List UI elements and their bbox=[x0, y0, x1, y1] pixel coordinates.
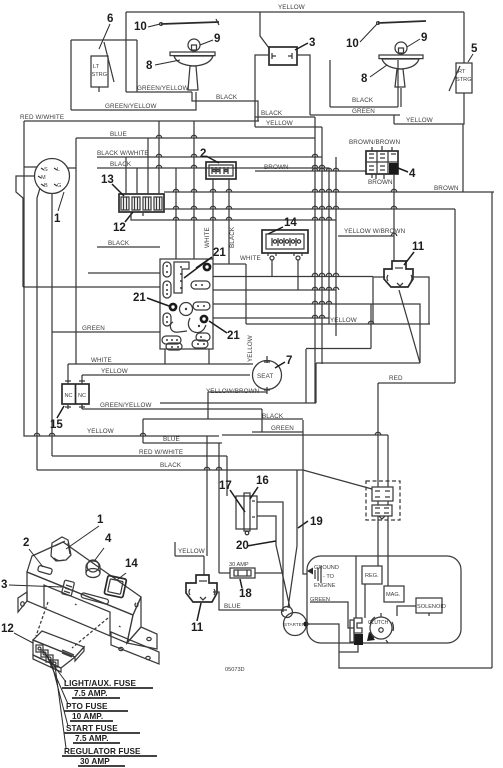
svg-text:STRG: STRG bbox=[456, 77, 472, 83]
console front face bbox=[27, 572, 133, 643]
console switch slot 3 bbox=[61, 580, 74, 596]
wire green/yellow upper bbox=[126, 91, 192, 93]
wire brown left bus bbox=[255, 170, 366, 172]
svg-text:BLACK: BLACK bbox=[108, 240, 130, 247]
svg-text:BLACK: BLACK bbox=[352, 97, 374, 104]
wire blue bus bbox=[76, 137, 315, 139]
svg-text:BLACK: BLACK bbox=[261, 110, 283, 117]
leader 11 lower bbox=[197, 603, 201, 621]
svg-text:RT: RT bbox=[458, 69, 466, 75]
wire pcb right stub 262 bbox=[213, 263, 246, 265]
wire lamp stem to black bbox=[192, 92, 258, 121]
svg-text:7.5 AMP.: 7.5 AMP. bbox=[75, 734, 109, 743]
svg-text:7: 7 bbox=[286, 355, 292, 367]
console leader 2 bbox=[29, 549, 43, 567]
wire starter dot to engine loop bbox=[306, 624, 492, 668]
connector 4 bbox=[366, 151, 398, 174]
svg-text:- TO: - TO bbox=[323, 574, 335, 580]
svg-text:GREEN/YELLOW: GREEN/YELLOW bbox=[100, 402, 152, 409]
console hidden leader dashed b bbox=[72, 618, 108, 648]
wire 19 drop bbox=[288, 470, 297, 608]
svg-text:8: 8 bbox=[361, 73, 368, 85]
console top face bbox=[27, 542, 141, 615]
svg-text:11: 11 bbox=[412, 241, 425, 253]
hour meter 2 bbox=[206, 162, 236, 179]
wire 363 vertical bbox=[315, 363, 317, 403]
fuse label pto bbox=[64, 702, 128, 721]
wire fuse pin up 3 bbox=[147, 138, 149, 194]
svg-text:21: 21 bbox=[227, 330, 240, 342]
leader 12 bbox=[125, 212, 133, 222]
svg-text:NC: NC bbox=[65, 393, 73, 399]
wire yellow right drop bbox=[462, 124, 464, 192]
svg-text:YELLOW: YELLOW bbox=[266, 120, 293, 127]
engine block bbox=[307, 556, 461, 643]
wire ignition G down bbox=[51, 194, 53, 456]
wire ignition L right bbox=[67, 167, 76, 169]
console leader 3 bbox=[9, 585, 62, 587]
wire pcb top pin long bbox=[193, 121, 195, 259]
dashed connector box bbox=[366, 481, 400, 520]
seat switch 7 bbox=[253, 356, 282, 394]
svg-text:YELLOW: YELLOW bbox=[330, 317, 357, 324]
wire conn feed left bbox=[222, 434, 388, 436]
pcb module bbox=[160, 259, 213, 350]
svg-text:RED W/WHITE: RED W/WHITE bbox=[139, 449, 183, 456]
console leader 14 bbox=[117, 573, 126, 580]
magneto box bbox=[384, 586, 404, 602]
solenoid box bbox=[416, 598, 446, 613]
svg-text:GREEN/YELLOW: GREEN/YELLOW bbox=[137, 85, 189, 92]
svg-text:10: 10 bbox=[346, 38, 359, 50]
wire LT STRG bottom stub bbox=[98, 87, 100, 92]
leader 1 ignition bbox=[58, 192, 64, 211]
wire flasher left pin bbox=[255, 55, 269, 127]
fuse leader 1 bbox=[43, 651, 66, 682]
connector pin 21 bottom bbox=[200, 315, 209, 324]
wire meter14 left pin down bbox=[271, 260, 273, 276]
svg-text:BLUE: BLUE bbox=[224, 603, 241, 610]
svg-text:CLUTCH: CLUTCH bbox=[368, 620, 389, 626]
wire from top frame to resistor box 3 bbox=[260, 12, 269, 48]
console notch bbox=[44, 585, 110, 636]
wire frame left vertical bbox=[70, 40, 72, 110]
svg-text:30 AMP: 30 AMP bbox=[80, 757, 110, 766]
svg-text:L: L bbox=[57, 167, 60, 173]
switch RT STRG body bbox=[456, 63, 472, 93]
label GROUND TO ENGINE bbox=[314, 565, 339, 589]
leader 13 bbox=[112, 184, 124, 196]
wire rt strg top to yellow bus bbox=[463, 12, 465, 63]
wire blue elbow left bbox=[142, 419, 144, 443]
wire meter14 right pin down bbox=[297, 260, 299, 290]
svg-text:12: 12 bbox=[113, 222, 126, 234]
svg-text:18: 18 bbox=[239, 588, 252, 600]
leader 7 bbox=[275, 362, 285, 368]
wire 371 riser bbox=[370, 304, 372, 349]
svg-text:BLACK: BLACK bbox=[216, 94, 238, 101]
wire engine conn bottom drop bbox=[339, 645, 358, 652]
wire fuse16 right top bbox=[257, 502, 283, 612]
svg-text:BROWN: BROWN bbox=[434, 185, 459, 192]
wire central vertical 3 bbox=[328, 168, 330, 324]
wire solenoid stub bbox=[428, 613, 430, 616]
wire blue 443 bus bbox=[143, 442, 222, 444]
svg-text:5: 5 bbox=[471, 43, 478, 55]
wire yellow w/brown bus bbox=[338, 235, 394, 237]
wire pcb right stub 304 bbox=[213, 304, 420, 363]
svg-text:16: 16 bbox=[256, 475, 269, 487]
svg-text:BLACK: BLACK bbox=[160, 462, 182, 469]
leader 15 bbox=[57, 406, 64, 418]
wire fuse18 right bbox=[255, 572, 283, 574]
svg-text:LIGHT/AUX. FUSE: LIGHT/AUX. FUSE bbox=[64, 679, 136, 688]
flasher box 3 bbox=[269, 47, 297, 65]
wire red w/white top bus bbox=[24, 120, 259, 122]
wire ignition S up bbox=[24, 166, 37, 168]
wire fuse pin up 2 bbox=[136, 168, 138, 194]
svg-text:19: 19 bbox=[310, 516, 323, 528]
svg-text:BLUE: BLUE bbox=[110, 131, 127, 138]
wire pcb right stub 290 bbox=[213, 289, 336, 291]
clutch bbox=[367, 613, 393, 643]
fuse label start bbox=[64, 724, 140, 743]
wire fuse18 left bbox=[219, 572, 230, 574]
console left foot bbox=[18, 592, 27, 612]
wire fuse out B bbox=[142, 212, 144, 216]
wire frame right vertical bbox=[136, 40, 138, 92]
wire left feed 287 bbox=[23, 286, 160, 288]
wire yellow 434 bus bbox=[24, 121, 219, 436]
wire left feed 273 bbox=[88, 272, 160, 274]
svg-text:BLUE: BLUE bbox=[163, 436, 180, 443]
wire solenoid left bbox=[397, 606, 416, 616]
svg-text:4: 4 bbox=[105, 533, 112, 545]
wire pcb bottom stub a bbox=[164, 349, 166, 364]
fuse leader 2 bbox=[47, 656, 68, 704]
wire top yellow bus bbox=[126, 11, 464, 13]
wire right lamp bottom black bbox=[330, 106, 398, 108]
svg-text:STRG: STRG bbox=[92, 72, 108, 78]
svg-text:YELLOW/BROWN: YELLOW/BROWN bbox=[206, 388, 260, 395]
lamp 8 left assembly bbox=[170, 39, 215, 90]
wire green engine bbox=[310, 602, 354, 628]
wire conn to reg bbox=[377, 516, 379, 566]
connector pin 21 top bbox=[203, 263, 212, 272]
wire fuse bus 220 bbox=[131, 212, 336, 220]
svg-text:BLACK: BLACK bbox=[229, 226, 236, 248]
svg-text:1: 1 bbox=[54, 213, 61, 225]
wire left frame vertical bbox=[125, 12, 127, 92]
svg-text:B: B bbox=[44, 183, 48, 189]
leader 16 bbox=[250, 487, 258, 499]
connector lower in dashed box bbox=[372, 505, 392, 519]
wire sw15 right bottom bbox=[81, 404, 83, 409]
svg-text:GREEN/YELLOW: GREEN/YELLOW bbox=[105, 103, 157, 110]
wire relay surround right bbox=[454, 209, 456, 383]
console knob 4 bbox=[86, 560, 100, 578]
wire central vertical 2 bbox=[321, 127, 323, 364]
leader 5 bbox=[468, 54, 473, 62]
wire fuse16 right bottom bbox=[257, 516, 290, 608]
wire meter2 right pin bbox=[228, 179, 230, 264]
svg-text:15: 15 bbox=[50, 419, 63, 431]
console key cylinder 1 bbox=[51, 537, 71, 561]
wire conn4 to relay vertical bbox=[393, 174, 395, 261]
wire reg bottom stub bbox=[364, 584, 366, 618]
console hidden leader dashed a bbox=[36, 602, 48, 636]
leader 8 left bbox=[155, 60, 180, 65]
svg-text:WHITE: WHITE bbox=[204, 227, 211, 248]
fuse 18 bbox=[230, 568, 255, 578]
fuse leader 4 bbox=[55, 666, 66, 748]
wire conn4 top bbox=[381, 146, 383, 151]
svg-text:9: 9 bbox=[214, 33, 220, 45]
svg-text:30 AMP: 30 AMP bbox=[229, 562, 249, 568]
wire fuse pin up 1 bbox=[125, 157, 127, 194]
wire white bus bbox=[68, 363, 253, 365]
svg-text:1: 1 bbox=[97, 514, 104, 526]
engine connector black bbox=[350, 618, 363, 645]
console lower bracket bbox=[111, 632, 159, 664]
svg-text:BROWN/BROWN: BROWN/BROWN bbox=[349, 139, 400, 146]
wire right lamp right drop bbox=[397, 60, 399, 107]
wire conn drop 377 bbox=[377, 383, 379, 487]
wire fuse bus 209 bbox=[164, 208, 455, 210]
wire black 420 bus bbox=[143, 418, 303, 420]
svg-text:RED: RED bbox=[389, 375, 403, 382]
wire right lamp stem drop bbox=[400, 88, 402, 107]
svg-text:BROWN: BROWN bbox=[368, 179, 393, 186]
wire 349 branch bbox=[306, 348, 371, 350]
svg-text:YELLOW: YELLOW bbox=[178, 548, 205, 555]
leader 9 right bbox=[407, 39, 420, 47]
console oval slot bbox=[81, 592, 109, 604]
svg-text:BLACK: BLACK bbox=[262, 413, 284, 420]
console screw dots bbox=[75, 603, 138, 627]
regulator box bbox=[362, 566, 382, 584]
wire central vertical 1 bbox=[314, 117, 316, 403]
svg-text:BLACK W/WHITE: BLACK W/WHITE bbox=[97, 150, 149, 157]
svg-text:9: 9 bbox=[421, 32, 427, 44]
wire yellow/brown drop bbox=[207, 392, 209, 419]
wire 349 vertical bbox=[305, 349, 307, 403]
fuse holder 16/17 bbox=[236, 493, 257, 535]
leader 21 top bbox=[184, 257, 212, 278]
harness rod right bbox=[377, 21, 426, 24]
wire ignition M left bbox=[16, 176, 35, 287]
wire sw15 left top bbox=[67, 364, 69, 379]
svg-text:GROUND: GROUND bbox=[314, 565, 339, 571]
fuse block 12 console bbox=[33, 631, 84, 672]
wire drop 227 bbox=[226, 456, 228, 496]
wire ignition B down bbox=[37, 188, 40, 470]
wire green/yellow lower bbox=[71, 92, 196, 110]
svg-text:STARTER: STARTER bbox=[284, 622, 306, 627]
wire conn drop 388 bbox=[387, 435, 389, 487]
svg-text:3: 3 bbox=[309, 37, 315, 49]
svg-text:YELLOW: YELLOW bbox=[406, 117, 433, 124]
svg-text:05073D: 05073D bbox=[225, 667, 245, 673]
wire drop 219 bbox=[218, 443, 220, 573]
svg-text:WHITE: WHITE bbox=[91, 357, 112, 364]
wire rt strg bottom to yellow bbox=[394, 93, 464, 124]
wire relay right pin out bbox=[414, 277, 429, 324]
svg-text:NC: NC bbox=[78, 393, 86, 399]
svg-text:REG.: REG. bbox=[365, 573, 379, 579]
svg-text:11: 11 bbox=[191, 622, 204, 634]
starter motor bbox=[282, 607, 309, 636]
svg-text:YELLOW: YELLOW bbox=[247, 335, 254, 362]
svg-text:SOLENOID: SOLENOID bbox=[417, 604, 446, 610]
svg-text:10 AMP.: 10 AMP. bbox=[72, 712, 103, 721]
wire yellow bottom stub bbox=[175, 555, 204, 557]
wire sw15 right top bbox=[81, 375, 83, 379]
svg-text:21: 21 bbox=[133, 292, 146, 304]
leader 3 bbox=[295, 43, 308, 50]
wire fuse bus 192 bbox=[164, 191, 494, 193]
wire conn mid 377 bbox=[377, 501, 379, 505]
wire drop 207 bbox=[206, 436, 208, 556]
wire yellow/brown seat bbox=[208, 391, 267, 393]
wire red w/white 456 bus bbox=[52, 455, 227, 457]
leader 6 bbox=[99, 24, 110, 49]
wire pcb bottom stub b bbox=[208, 349, 210, 364]
svg-text:S: S bbox=[44, 167, 48, 173]
svg-text:SEAT: SEAT bbox=[257, 373, 273, 380]
svg-text:BLACK: BLACK bbox=[110, 161, 132, 168]
leader 10 left bbox=[148, 24, 160, 27]
wire fuse pin up 4 bbox=[158, 121, 160, 194]
wire green/yellow bus bbox=[82, 408, 262, 410]
ground symbol bbox=[307, 566, 321, 583]
svg-text:10: 10 bbox=[134, 21, 147, 33]
pto switch 15 bbox=[62, 379, 89, 409]
svg-text:3: 3 bbox=[1, 579, 7, 591]
wire bottom 403 bus bbox=[160, 402, 316, 404]
svg-text:REGULATOR FUSE: REGULATOR FUSE bbox=[64, 747, 141, 756]
fuse label regulator bbox=[62, 747, 157, 766]
wire drop 264 yellow bbox=[261, 409, 263, 432]
leader 8 right bbox=[370, 65, 387, 77]
wire green 432 bus bbox=[252, 431, 303, 433]
leader 20 bbox=[247, 541, 276, 546]
wire conn4 bottom pins bbox=[376, 174, 384, 179]
wire blue starter bbox=[213, 592, 287, 610]
wire engine conn top bbox=[355, 556, 357, 618]
wire black w/white bus bbox=[97, 156, 322, 158]
switch LT STRG body bbox=[91, 56, 108, 87]
svg-text:WHITE: WHITE bbox=[240, 255, 261, 262]
svg-text:G: G bbox=[57, 183, 61, 189]
console right bracket bbox=[127, 627, 157, 649]
svg-text:M: M bbox=[41, 175, 46, 181]
wire hops bbox=[34, 135, 397, 470]
wire 363 branch bbox=[316, 362, 420, 364]
connector upper in dashed box bbox=[372, 487, 393, 501]
console slot 2 bbox=[37, 565, 52, 575]
wire green drop to engine bbox=[303, 420, 307, 574]
fuse label light/aux bbox=[62, 679, 153, 698]
leader 18 bbox=[240, 579, 242, 588]
leader 21 left bbox=[147, 298, 169, 306]
wire blue left drop bbox=[75, 138, 77, 364]
switch RT STRG lever bbox=[449, 66, 460, 91]
wire right lamp left drop bbox=[329, 60, 331, 107]
svg-text:14: 14 bbox=[284, 217, 297, 229]
lamp 8 right assembly bbox=[379, 42, 423, 87]
svg-text:ENGINE: ENGINE bbox=[314, 583, 336, 589]
wire yellow join bbox=[393, 115, 395, 124]
wire green left bus bbox=[52, 331, 160, 333]
svg-text:4: 4 bbox=[409, 168, 416, 180]
leader 2 bbox=[206, 156, 219, 163]
leader 10 right bbox=[360, 24, 377, 42]
wire pcb top pin mid bbox=[175, 168, 177, 259]
wire conn to mag bbox=[387, 516, 389, 586]
wire yellow mid bus bbox=[246, 323, 430, 325]
svg-text:YELLOW: YELLOW bbox=[278, 4, 305, 11]
svg-text:LT: LT bbox=[93, 64, 100, 70]
leader 19 bbox=[298, 521, 308, 528]
connector pin 21 left bbox=[169, 303, 178, 312]
svg-text:PTO FUSE: PTO FUSE bbox=[66, 702, 108, 711]
wire yellow to relay notch bbox=[203, 556, 205, 575]
fuse block 13/12 bbox=[119, 194, 164, 212]
wire pcb right stub 276 bbox=[213, 276, 373, 278]
console bezel 14 bbox=[104, 575, 127, 598]
svg-text:GREEN: GREEN bbox=[82, 325, 105, 332]
wire frame horizontal bbox=[71, 39, 137, 41]
wire white stub riser bbox=[245, 264, 247, 324]
leader 4 bbox=[398, 168, 408, 172]
console leader 12 bbox=[14, 633, 33, 643]
console right cap bbox=[127, 597, 141, 643]
wire conn mid 388 bbox=[387, 501, 389, 505]
wire green bus bbox=[310, 114, 400, 116]
wire black to pcb bbox=[97, 246, 160, 248]
svg-text:YELLOW: YELLOW bbox=[101, 368, 128, 375]
harness rod left bbox=[160, 19, 219, 25]
leader 9 left bbox=[200, 40, 213, 45]
svg-text:BROWN: BROWN bbox=[264, 164, 289, 171]
svg-text:12: 12 bbox=[1, 623, 14, 635]
svg-text:8: 8 bbox=[146, 60, 153, 72]
wire pcb right stub 318 bbox=[213, 317, 329, 319]
svg-text:GREEN: GREEN bbox=[352, 108, 375, 115]
svg-text:21: 21 bbox=[213, 247, 226, 259]
svg-text:14: 14 bbox=[125, 558, 138, 570]
leader 14 bbox=[268, 227, 283, 234]
wire yellow bus 375 bbox=[82, 374, 250, 376]
wire flasher right pin bbox=[297, 55, 310, 115]
svg-text:MAG.: MAG. bbox=[386, 592, 401, 598]
relay 11 bbox=[384, 261, 413, 287]
svg-text:2: 2 bbox=[200, 148, 206, 160]
svg-text:7.5 AMP.: 7.5 AMP. bbox=[74, 689, 108, 698]
wire black 470 bus bbox=[37, 470, 372, 489]
wire brown right vertical bbox=[491, 192, 493, 668]
wire central vertical 4 bbox=[335, 157, 337, 336]
relay 11 lower bbox=[186, 575, 217, 602]
leader 17 bbox=[230, 490, 245, 512]
switch LT STRG lever bbox=[104, 42, 114, 82]
fuse leader 3 bbox=[51, 661, 68, 726]
ignition switch 1 bbox=[35, 159, 70, 194]
wire relay left pin out bbox=[373, 277, 385, 324]
wire black bus mid bbox=[97, 167, 329, 169]
wire yellow elbow lower bbox=[174, 542, 176, 556]
